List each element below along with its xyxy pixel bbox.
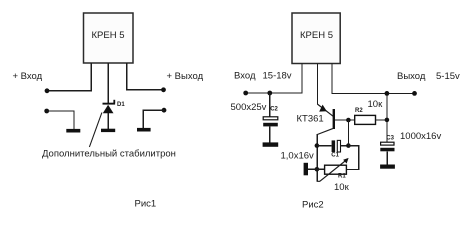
svg-text:КТ361: КТ361 (297, 114, 324, 125)
node: R2/C3 junction dot (385, 118, 390, 123)
transistor Q1 KT361 collector (diagonal) (317, 129, 333, 135)
wire: fig2 middle pin (emitter lead) (317, 64, 319, 105)
wire: lower-left terminal to ground (47, 110, 74, 129)
svg-text:Вход: Вход (234, 71, 256, 82)
wire: fig2 output pin and output rail (331, 64, 414, 94)
node: C2 junction dot (267, 91, 272, 96)
node: + Вход terminal dot (45, 88, 50, 93)
node: fig1 lower-right terminal dot (162, 108, 167, 113)
svg-text:1000x16v: 1000x16v (400, 131, 441, 142)
node: output rail / C3 dot (385, 91, 390, 96)
wire: plate to pot left (308, 168, 325, 170)
svg-text:КРЕН 5: КРЕН 5 (92, 30, 125, 41)
svg-text:+ Выход: + Выход (167, 71, 204, 82)
wire: base node down to C1 right (347, 120, 349, 146)
wire: R2 right to output rail / C3 (376, 93, 387, 142)
node: base node dot (346, 118, 351, 123)
transistor Q1 KT361 base bar (333, 109, 335, 129)
svg-text:Выход: Выход (397, 71, 426, 82)
resistor R2 10k (355, 115, 376, 124)
capacitor 1,0x16v terminal plate (304, 163, 308, 176)
wire: collector down the left branch (316, 134, 318, 181)
svg-text:15-18v: 15-18v (263, 71, 292, 82)
wire: zener anode to ground (107, 113, 109, 129)
wire: base to R2 (335, 119, 355, 121)
wire: fig1 output pin to + Выход terminal (126, 63, 163, 90)
wire: fig1 input pin to + Вход terminal (47, 63, 92, 91)
regulator IC KREN5 (fig1) (84, 13, 134, 63)
svg-text:C1: C1 (331, 153, 339, 159)
zener diode D1 (cathode bar) (103, 100, 116, 105)
wire: detour C1-right to pot right terminal (346, 146, 358, 170)
node: + Выход terminal dot (161, 87, 166, 92)
capacitor C2 500x25v (263, 93, 278, 142)
capacitor C1 (317, 140, 348, 152)
ground (under zener, fig1) (101, 129, 115, 132)
svg-text:Рис2: Рис2 (302, 200, 324, 211)
node: collector/C1 dot (315, 143, 320, 148)
node: fig1 lower-left terminal dot (44, 109, 49, 114)
svg-text:500x25v: 500x25v (231, 102, 267, 113)
wire: wiper tie (L from left node to arrow tail) (317, 169, 320, 181)
svg-text:10к: 10к (368, 99, 384, 110)
regulator IC KREN5 (fig2) (292, 13, 340, 64)
node: C1 right dot (346, 143, 351, 148)
potentiometer R1 wiper arrow (320, 158, 349, 181)
capacitor C3 1000x16v (380, 142, 394, 164)
wire: fig2 input pin and input rail (246, 64, 303, 94)
svg-text:Дополнительный стабилитрон: Дополнительный стабилитрон (42, 149, 176, 160)
svg-text:КРЕН 5: КРЕН 5 (300, 30, 333, 41)
leader line from caption to zener (89, 113, 102, 148)
svg-text:C2: C2 (270, 107, 278, 113)
svg-text:+ Вход: + Вход (13, 71, 43, 82)
ground (under C2) (263, 142, 279, 146)
wire: lower-right terminal to ground (143, 110, 164, 128)
svg-text:D1: D1 (117, 102, 125, 108)
ground (lower-right, fig1) (137, 128, 151, 132)
svg-text:R2: R2 (355, 108, 363, 114)
potentiometer R1 10k body (325, 165, 347, 174)
svg-text:10к: 10к (334, 182, 350, 193)
wire: fig1 middle (common) pin down to zener (107, 63, 109, 103)
ground (lower-left, fig1) (66, 129, 80, 133)
svg-text:1,0x16v: 1,0x16v (281, 151, 315, 162)
zener diode D1 (anode triangle) (103, 105, 114, 114)
node: output terminal dot (412, 91, 417, 96)
node: input terminal dot (243, 91, 248, 96)
svg-text:Рис1: Рис1 (135, 199, 157, 210)
node: collector/pot dot (315, 167, 320, 172)
ground (under C3) (380, 165, 395, 169)
svg-text:C3: C3 (386, 136, 394, 142)
svg-text:5-15v: 5-15v (436, 71, 460, 82)
svg-text:R1: R1 (338, 174, 346, 180)
transistor Q1 KT361 emitter (diagonal with arrow) (317, 104, 333, 116)
